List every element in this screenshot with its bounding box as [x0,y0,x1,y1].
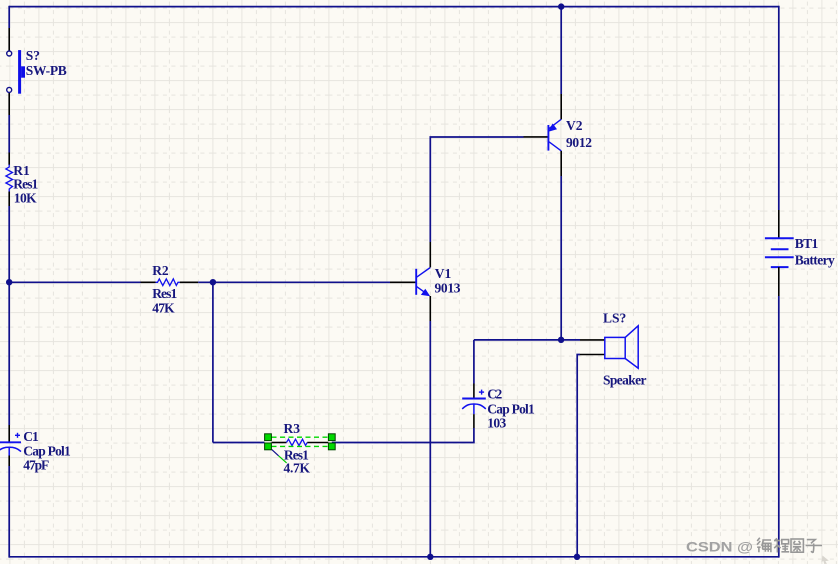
junction LS bottom rail [574,554,580,560]
svg-text:V1: V1 [435,266,452,281]
pin V2 emitter [560,94,562,119]
svg-text:BT1: BT1 [795,236,819,251]
wire speaker node to C2 [474,339,561,341]
wire left rail top [8,6,10,28]
watermark hanzi zi [806,540,822,553]
wire V2 collector down [560,176,562,340]
wire right rail lower [778,296,780,558]
svg-text:V2: V2 [566,118,583,133]
pin LS lower [580,354,605,356]
pin C1 negative [8,456,10,467]
pin V2 collector [560,151,562,176]
watermark hanzi bian [757,538,771,553]
svg-text:SW-PB: SW-PB [26,63,67,78]
wire left rail mid [8,206,10,425]
svg-text:47K: 47K [152,301,175,316]
pin C1 positive [8,425,10,442]
wire switch to R1 [8,115,10,153]
svg-text:Res1: Res1 [13,176,38,191]
pin R1 bottom [8,192,10,207]
pin S? bottom [8,93,10,115]
wire LS lower to ground rail [577,355,580,557]
junction V1 emitter bottom rail [427,554,433,560]
pin R2 left [141,281,156,283]
pin LS upper [580,339,605,341]
wire C2 bottom [332,428,474,443]
transistor V1 9013 NPN [416,268,430,297]
svg-text:Cap Pol1: Cap Pol1 [487,402,535,417]
wire V1 collector to V2 base [430,137,523,242]
pin C2 negative [473,414,475,428]
svg-text:CSDN @: CSDN @ [686,540,753,555]
svg-text:9012: 9012 [566,135,592,150]
capacitor C2 Cap Pol1 [462,390,486,415]
svg-text:47pF: 47pF [23,458,49,473]
watermark hanzi quan [791,539,803,552]
junction top rail V2 [558,3,564,9]
wire R2 to V1 base [198,281,390,283]
wire feedback vertical [212,282,214,442]
svg-text:R2: R2 [152,263,169,278]
wire C1 to bottom rail [8,466,10,558]
wire C2 top [473,340,475,384]
svg-text:Cap Pol1: Cap Pol1 [23,444,71,459]
capacitor C1 Cap Pol1 [0,433,21,456]
selection handles R3 [265,434,336,450]
cursor arrow [821,556,828,564]
pin R3 right [307,442,328,444]
pin BT1 positive [778,210,780,238]
pin S? top [8,28,10,51]
junction left rail / base wire [6,279,12,285]
resistor R2 [156,279,180,286]
junction base net [210,279,216,285]
svg-text:10K: 10K [14,191,37,206]
switch S? SW-PB [7,50,25,94]
wire feedback to R3 [213,442,265,444]
svg-text:103: 103 [487,415,506,430]
wire bottom rail [9,556,779,558]
svg-text:4.7K: 4.7K [284,460,311,475]
svg-text:Speaker: Speaker [603,373,647,388]
svg-text:Battery: Battery [795,253,835,268]
wire top rail VCC [9,6,779,8]
wire V2 emitter to top rail [560,7,562,94]
svg-text:C2: C2 [487,386,502,401]
battery BT1 [765,238,794,267]
resistor R1 [6,165,13,192]
pin V1 collector [429,242,431,267]
junction speaker node [558,337,564,343]
selection leader R3 [272,449,279,456]
pin R1 top [8,153,10,166]
svg-text:9013: 9013 [435,280,461,295]
wire speaker node to LS [561,339,580,341]
resistor R3 selected [287,439,308,445]
pin V1 emitter [429,296,431,321]
wire V1 emitter to ground rail [429,321,431,557]
svg-text:Res1: Res1 [152,286,177,301]
pin R3 left [272,442,287,444]
transistor V2 9012 PNP [548,119,561,151]
svg-text:S?: S? [26,48,40,63]
svg-text:C1: C1 [23,429,39,444]
pin R2 right [180,281,198,283]
pin V2 base [524,136,549,138]
selection dashes R3 [272,437,329,446]
pin BT1 negative [778,267,780,296]
pin C2 positive [473,384,475,398]
wire right rail upper [778,6,780,210]
speaker LS? [605,326,638,368]
watermark hanzi cheng [774,538,789,552]
svg-text:LS?: LS? [603,311,626,326]
svg-text:R3: R3 [284,421,301,436]
wire base net left [9,281,140,283]
pin V1 base [390,281,416,283]
